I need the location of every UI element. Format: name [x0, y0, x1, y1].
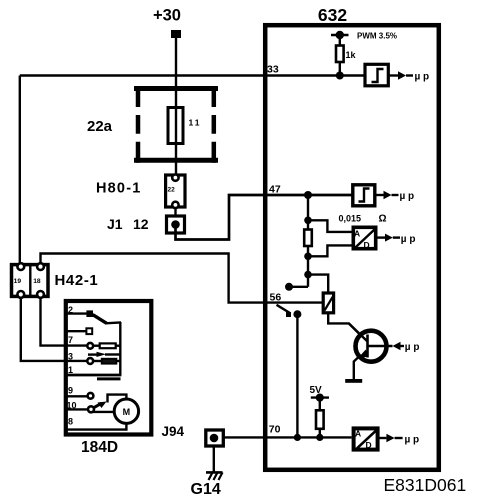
junction on pin33 wire: [336, 72, 344, 80]
label H80-1: [96, 181, 142, 197]
wire junction to driver resistor: [308, 275, 328, 293]
svg-text:19: 19: [14, 278, 22, 285]
label J94: [162, 424, 185, 439]
resistor row 3: [93, 359, 120, 364]
wire to A/D upper input: [308, 220, 352, 232]
svg-text:+30: +30: [153, 7, 181, 25]
stub contact wire: [291, 286, 308, 288]
label 1k: [346, 50, 357, 60]
svg-text:33: 33: [267, 64, 279, 76]
motor M: [114, 399, 138, 423]
svg-text:A: A: [354, 229, 360, 239]
arrow to microprocessor A/D: [376, 234, 416, 245]
svg-text:12: 12: [133, 216, 149, 232]
junction row70 left: [294, 434, 301, 441]
svg-text:0,015: 0,015: [339, 214, 362, 224]
ECU box 632: [265, 25, 439, 470]
svg-text:1: 1: [68, 365, 73, 375]
svg-text:µ p: µ p: [405, 342, 420, 353]
resistor 1k: [336, 46, 344, 63]
schmitt trigger U1: [365, 64, 388, 86]
svg-text:H80-1: H80-1: [96, 181, 142, 197]
fuse holder 22a dashed box: [134, 86, 218, 163]
contact dot to lower wire: [293, 310, 301, 318]
label G14: [191, 481, 221, 498]
svg-text:G14: G14: [191, 481, 221, 498]
internal rail: [119, 322, 121, 375]
A/D converter U3: [353, 227, 376, 250]
wire contact down to pin70 row: [296, 314, 298, 437]
wire node 47 down: [307, 195, 309, 230]
wire left rail down to H42-1: [19, 76, 21, 264]
label ohm: [379, 214, 387, 225]
pin 56 label: [270, 292, 282, 304]
svg-text:56: 56: [270, 292, 282, 304]
pin 10 label: [67, 401, 77, 411]
label J1 12: [107, 216, 149, 232]
PWM source symbol: [331, 31, 349, 39]
pin 7 label: [68, 335, 73, 345]
contact square pin 2: [86, 310, 93, 317]
svg-text:µ p: µ p: [401, 234, 416, 245]
wire PWM to resistor: [339, 35, 341, 46]
svg-text:632: 632: [318, 5, 347, 25]
label 0,015: [339, 214, 362, 224]
wire below shunt: [307, 246, 309, 287]
schmitt trigger U2: [353, 185, 375, 206]
splice J94: [206, 430, 224, 446]
svg-text:H42-1: H42-1: [55, 272, 99, 289]
connector H80-1: [166, 174, 185, 208]
pin 33 label: [267, 64, 279, 76]
svg-text:J94: J94: [162, 424, 185, 439]
junction below shunt: [304, 252, 312, 260]
svg-text:184D: 184D: [81, 439, 118, 456]
contact circle pin 3: [87, 358, 93, 364]
wire pin33 to H42-1 pin19 horizontal: [20, 74, 364, 76]
label PWM 3.5%: [357, 32, 397, 41]
pin 1 label: [68, 365, 73, 375]
fuse 11 body: [168, 108, 183, 144]
fuse value 11: [189, 118, 202, 128]
svg-text:70: 70: [269, 424, 281, 436]
wire driver resistor to transistor base: [328, 313, 364, 339]
svg-text:1k: 1k: [346, 50, 357, 60]
node +30 label: [153, 7, 181, 25]
arrow to microprocessor pin33: [388, 71, 429, 82]
svg-text:A: A: [355, 429, 361, 439]
pin 2 label: [68, 305, 73, 315]
pin 3 label: [68, 351, 73, 361]
wire to A/D lower input: [308, 245, 352, 256]
wire resistor to node 33: [339, 62, 341, 76]
pin 8 label: [68, 417, 73, 427]
junction above shunt: [304, 217, 312, 225]
wire J94 to A/D2 row70: [224, 436, 352, 438]
pin 70 label: [269, 424, 281, 436]
driver resistor with diagonal: [323, 293, 333, 313]
svg-text:18: 18: [33, 278, 41, 285]
label H42-1: [55, 272, 99, 289]
svg-text:E831D061: E831D061: [384, 475, 467, 495]
5V source symbol: [311, 394, 329, 402]
svg-text:M: M: [123, 407, 131, 417]
wire H42-1 pin19 to 184D pin3: [21, 298, 88, 361]
svg-text:3: 3: [68, 351, 73, 361]
svg-text:PWM 3.5%: PWM 3.5%: [357, 32, 397, 41]
splice J1 12: [167, 216, 185, 233]
arrow from microprocessor to transistor: [393, 342, 420, 353]
wire resistor to pin70 row: [319, 429, 321, 438]
node +30 terminal square: [171, 30, 181, 38]
svg-text:µ p: µ p: [405, 435, 420, 446]
pull-up resistor: [316, 410, 324, 429]
svg-text:D: D: [364, 240, 370, 250]
resistor row 7: [93, 343, 120, 348]
wire motor to pin 8: [66, 423, 126, 429]
svg-text:Ω: Ω: [379, 214, 387, 225]
contact circle pin 7: [87, 343, 93, 349]
contact square row below pin 2: [66, 328, 92, 334]
ground G14 symbol: [206, 472, 223, 480]
svg-text:µ p: µ p: [415, 72, 430, 83]
svg-text:8: 8: [68, 417, 73, 427]
label 184D: [81, 439, 118, 456]
svg-text:7: 7: [68, 335, 73, 345]
svg-text:47: 47: [269, 184, 281, 196]
svg-text:D: D: [366, 440, 372, 450]
label E831D061: [384, 475, 467, 495]
svg-text:22: 22: [168, 187, 176, 194]
pin 9 label: [68, 386, 73, 396]
junction lower: [304, 271, 312, 279]
stub contact dot: [285, 283, 293, 291]
switch arm pin 56: [277, 305, 292, 317]
A/D converter U4: [354, 428, 378, 449]
wire pin10 to motor: [93, 411, 114, 413]
potentiometer wiper arrow: [88, 352, 120, 357]
switch unit 184D box: [66, 301, 152, 435]
svg-text:µ p: µ p: [400, 191, 415, 202]
wire H42-1 pin18 to pin 56: [41, 254, 322, 303]
label 22a: [87, 118, 113, 135]
wire +30 vertical to fuse and H80-1: [174, 38, 177, 216]
label 632: [318, 5, 347, 25]
wire H42-1 pin18 to 184D pin7: [41, 298, 88, 346]
svg-text:J1: J1: [107, 216, 123, 232]
shunt resistor 0.015: [304, 230, 312, 247]
transistor Q1: [349, 323, 393, 379]
node 5V label: [310, 385, 323, 396]
wire 5V to pull-up resistor: [319, 398, 321, 411]
svg-text:9: 9: [68, 386, 73, 396]
wire row pin 1 bottom of pot: [66, 375, 121, 379]
junction on pin47 wire: [304, 191, 312, 199]
pin 47 label: [269, 184, 281, 196]
motor switch armature: [94, 395, 127, 408]
svg-text:11: 11: [189, 118, 202, 128]
arrow to microprocessor pin70: [378, 434, 420, 446]
wire row pin 2: [66, 312, 87, 314]
svg-text:22a: 22a: [87, 118, 113, 135]
junction row70 right: [316, 434, 323, 441]
switch armature from pin 2: [93, 315, 121, 324]
wire row pin 10: [66, 406, 94, 412]
wire row pin 9: [66, 393, 93, 399]
connector H42-1: [12, 263, 49, 298]
ground bar under transistor: [345, 379, 362, 383]
wire J1-12 to pin 47: [176, 195, 352, 240]
arrow to microprocessor pin47: [375, 191, 414, 202]
wire J94 to ground: [213, 446, 215, 472]
